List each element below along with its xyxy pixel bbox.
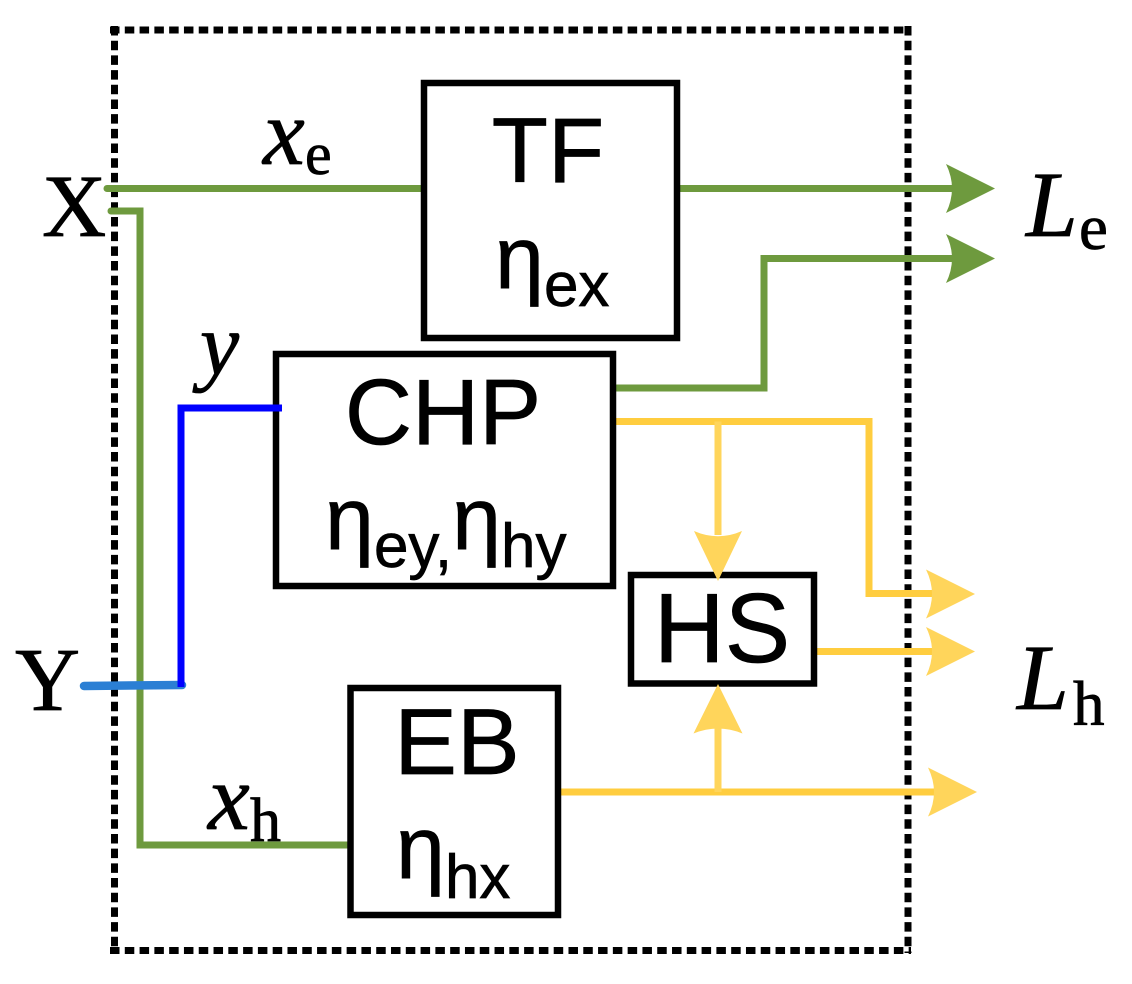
- wire CHP electric output elbow: [613, 259, 960, 389]
- svg-text:HS: HS: [654, 573, 790, 683]
- wire Y light blue stub: [84, 685, 182, 686]
- svg-text:y: y: [192, 297, 240, 394]
- arrow L_e top: [946, 164, 995, 213]
- arrow into HS top: [694, 531, 742, 581]
- svg-text:e: e: [305, 121, 332, 187]
- system boundary dashed box: [110, 26, 911, 953]
- wire TF output to L_e arrow: [677, 185, 960, 192]
- svg-text:x: x: [261, 81, 305, 185]
- svg-text:Y: Y: [15, 631, 80, 730]
- svg-text:e: e: [1079, 192, 1108, 264]
- arrow into HS bottom: [694, 684, 743, 734]
- svg-text:h: h: [1073, 669, 1105, 739]
- svg-text:CHP: CHP: [345, 360, 541, 464]
- block HS: [631, 575, 814, 684]
- arrow L_e bottom: [946, 234, 995, 283]
- wire x_e green X to TF: [107, 185, 424, 192]
- block TF: [424, 83, 677, 338]
- svg-text:TF: TF: [492, 100, 604, 202]
- svg-text:L: L: [1024, 154, 1078, 257]
- wire y blue to CHP: [181, 408, 281, 687]
- arrow L_h middle: [926, 627, 975, 676]
- wire HS output: [814, 648, 944, 655]
- arrow L_h bottom: [928, 768, 977, 817]
- svg-text:EB: EB: [394, 689, 519, 794]
- wire y blue tip over CHP edge: [272, 405, 282, 412]
- svg-text:L: L: [1015, 627, 1069, 730]
- block CHP: [276, 354, 613, 586]
- wire x_h green X down to EB: [111, 211, 350, 845]
- block EB: [351, 688, 559, 915]
- wire EB heat output: [558, 789, 946, 796]
- arrow L_h top: [926, 570, 975, 619]
- wire CHP to HS branch down: [715, 422, 722, 536]
- svg-text:h: h: [250, 787, 281, 855]
- svg-text:x: x: [206, 746, 250, 850]
- wire CHP heat output horizontal: [613, 422, 944, 594]
- svg-text:X: X: [42, 158, 106, 256]
- wire EB to HS branch up: [715, 726, 722, 792]
